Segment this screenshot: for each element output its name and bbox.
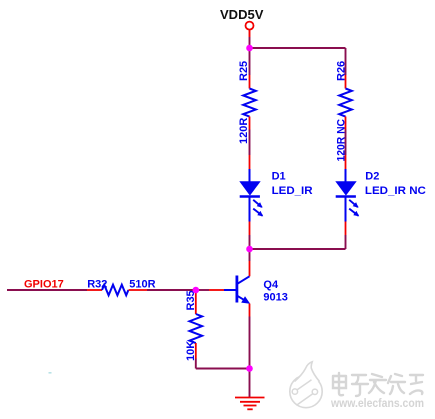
artifact dot: [49, 372, 52, 374]
watermark logo: [290, 362, 322, 408]
resistor R32: [87, 279, 156, 296]
svg-text:www.elecfans.com: www.elecfans.com: [330, 398, 424, 410]
svg-text:D1: D1: [272, 170, 286, 182]
watermark text: [333, 373, 423, 396]
junction D: [246, 365, 253, 372]
wire: [250, 248, 346, 250]
svg-text:120R: 120R: [238, 118, 250, 144]
svg-text:R26: R26: [336, 61, 348, 81]
svg-text:LED_IR NC: LED_IR NC: [365, 185, 426, 197]
wire: [249, 130, 251, 156]
junction A: [246, 45, 253, 52]
ground: [235, 398, 265, 410]
wire: [7, 289, 87, 291]
LED D1: [239, 155, 312, 235]
junction C: [193, 287, 200, 294]
wire: [249, 369, 251, 398]
wire: [249, 235, 251, 249]
wire: [195, 359, 197, 369]
svg-text:D2: D2: [365, 170, 379, 182]
wire: [345, 48, 347, 75]
wire: [249, 249, 251, 261]
wire: [345, 130, 347, 156]
svg-text:9013: 9013: [263, 292, 287, 304]
svg-text:510R: 510R: [129, 279, 155, 291]
wire: [345, 235, 347, 249]
wire: [196, 368, 250, 370]
wire: [249, 317, 251, 369]
svg-text:Q4: Q4: [263, 279, 279, 291]
svg-text:GPIO17: GPIO17: [24, 279, 64, 291]
svg-text:VDD5V: VDD5V: [220, 7, 264, 22]
transistor Q4: [209, 261, 288, 317]
resistor R26: [336, 61, 352, 162]
svg-text:LED_IR: LED_IR: [272, 185, 313, 197]
svg-text:R32: R32: [87, 279, 107, 291]
wire: [250, 47, 346, 49]
wire: [196, 289, 209, 291]
svg-text:10K: 10K: [185, 341, 197, 361]
wire: [249, 37, 251, 48]
svg-text:R35: R35: [185, 290, 197, 310]
wire: [147, 289, 196, 291]
svg-text:R25: R25: [238, 61, 250, 81]
power port VDD5V: [220, 7, 264, 37]
LED D2: [335, 155, 426, 235]
junction B: [246, 246, 253, 253]
resistor R25: [238, 61, 256, 144]
resistor R35: [185, 290, 202, 361]
wire: [249, 48, 251, 75]
